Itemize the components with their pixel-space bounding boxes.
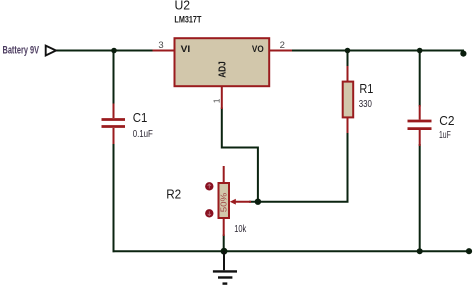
svg-text:VI: VI — [181, 44, 191, 55]
svg-text:330: 330 — [359, 99, 373, 110]
svg-text:1uF: 1uF — [439, 130, 451, 141]
svg-text:2: 2 — [280, 40, 285, 51]
svg-text:VO: VO — [252, 44, 264, 55]
svg-text:U2: U2 — [175, 0, 191, 13]
svg-text:1: 1 — [212, 98, 222, 103]
svg-text:ADJ: ADJ — [218, 61, 229, 78]
svg-text:LM317T: LM317T — [174, 15, 201, 26]
svg-text:50%: 50% — [218, 192, 228, 212]
svg-text:0.1uF: 0.1uF — [133, 129, 153, 140]
svg-text:Battery 9V: Battery 9V — [3, 45, 40, 57]
svg-text:10k: 10k — [234, 224, 246, 235]
svg-text:C1: C1 — [133, 110, 148, 125]
svg-text:R2: R2 — [166, 187, 181, 202]
svg-text:C2: C2 — [439, 113, 454, 128]
svg-text:3: 3 — [158, 40, 163, 51]
svg-text:R1: R1 — [359, 81, 373, 96]
